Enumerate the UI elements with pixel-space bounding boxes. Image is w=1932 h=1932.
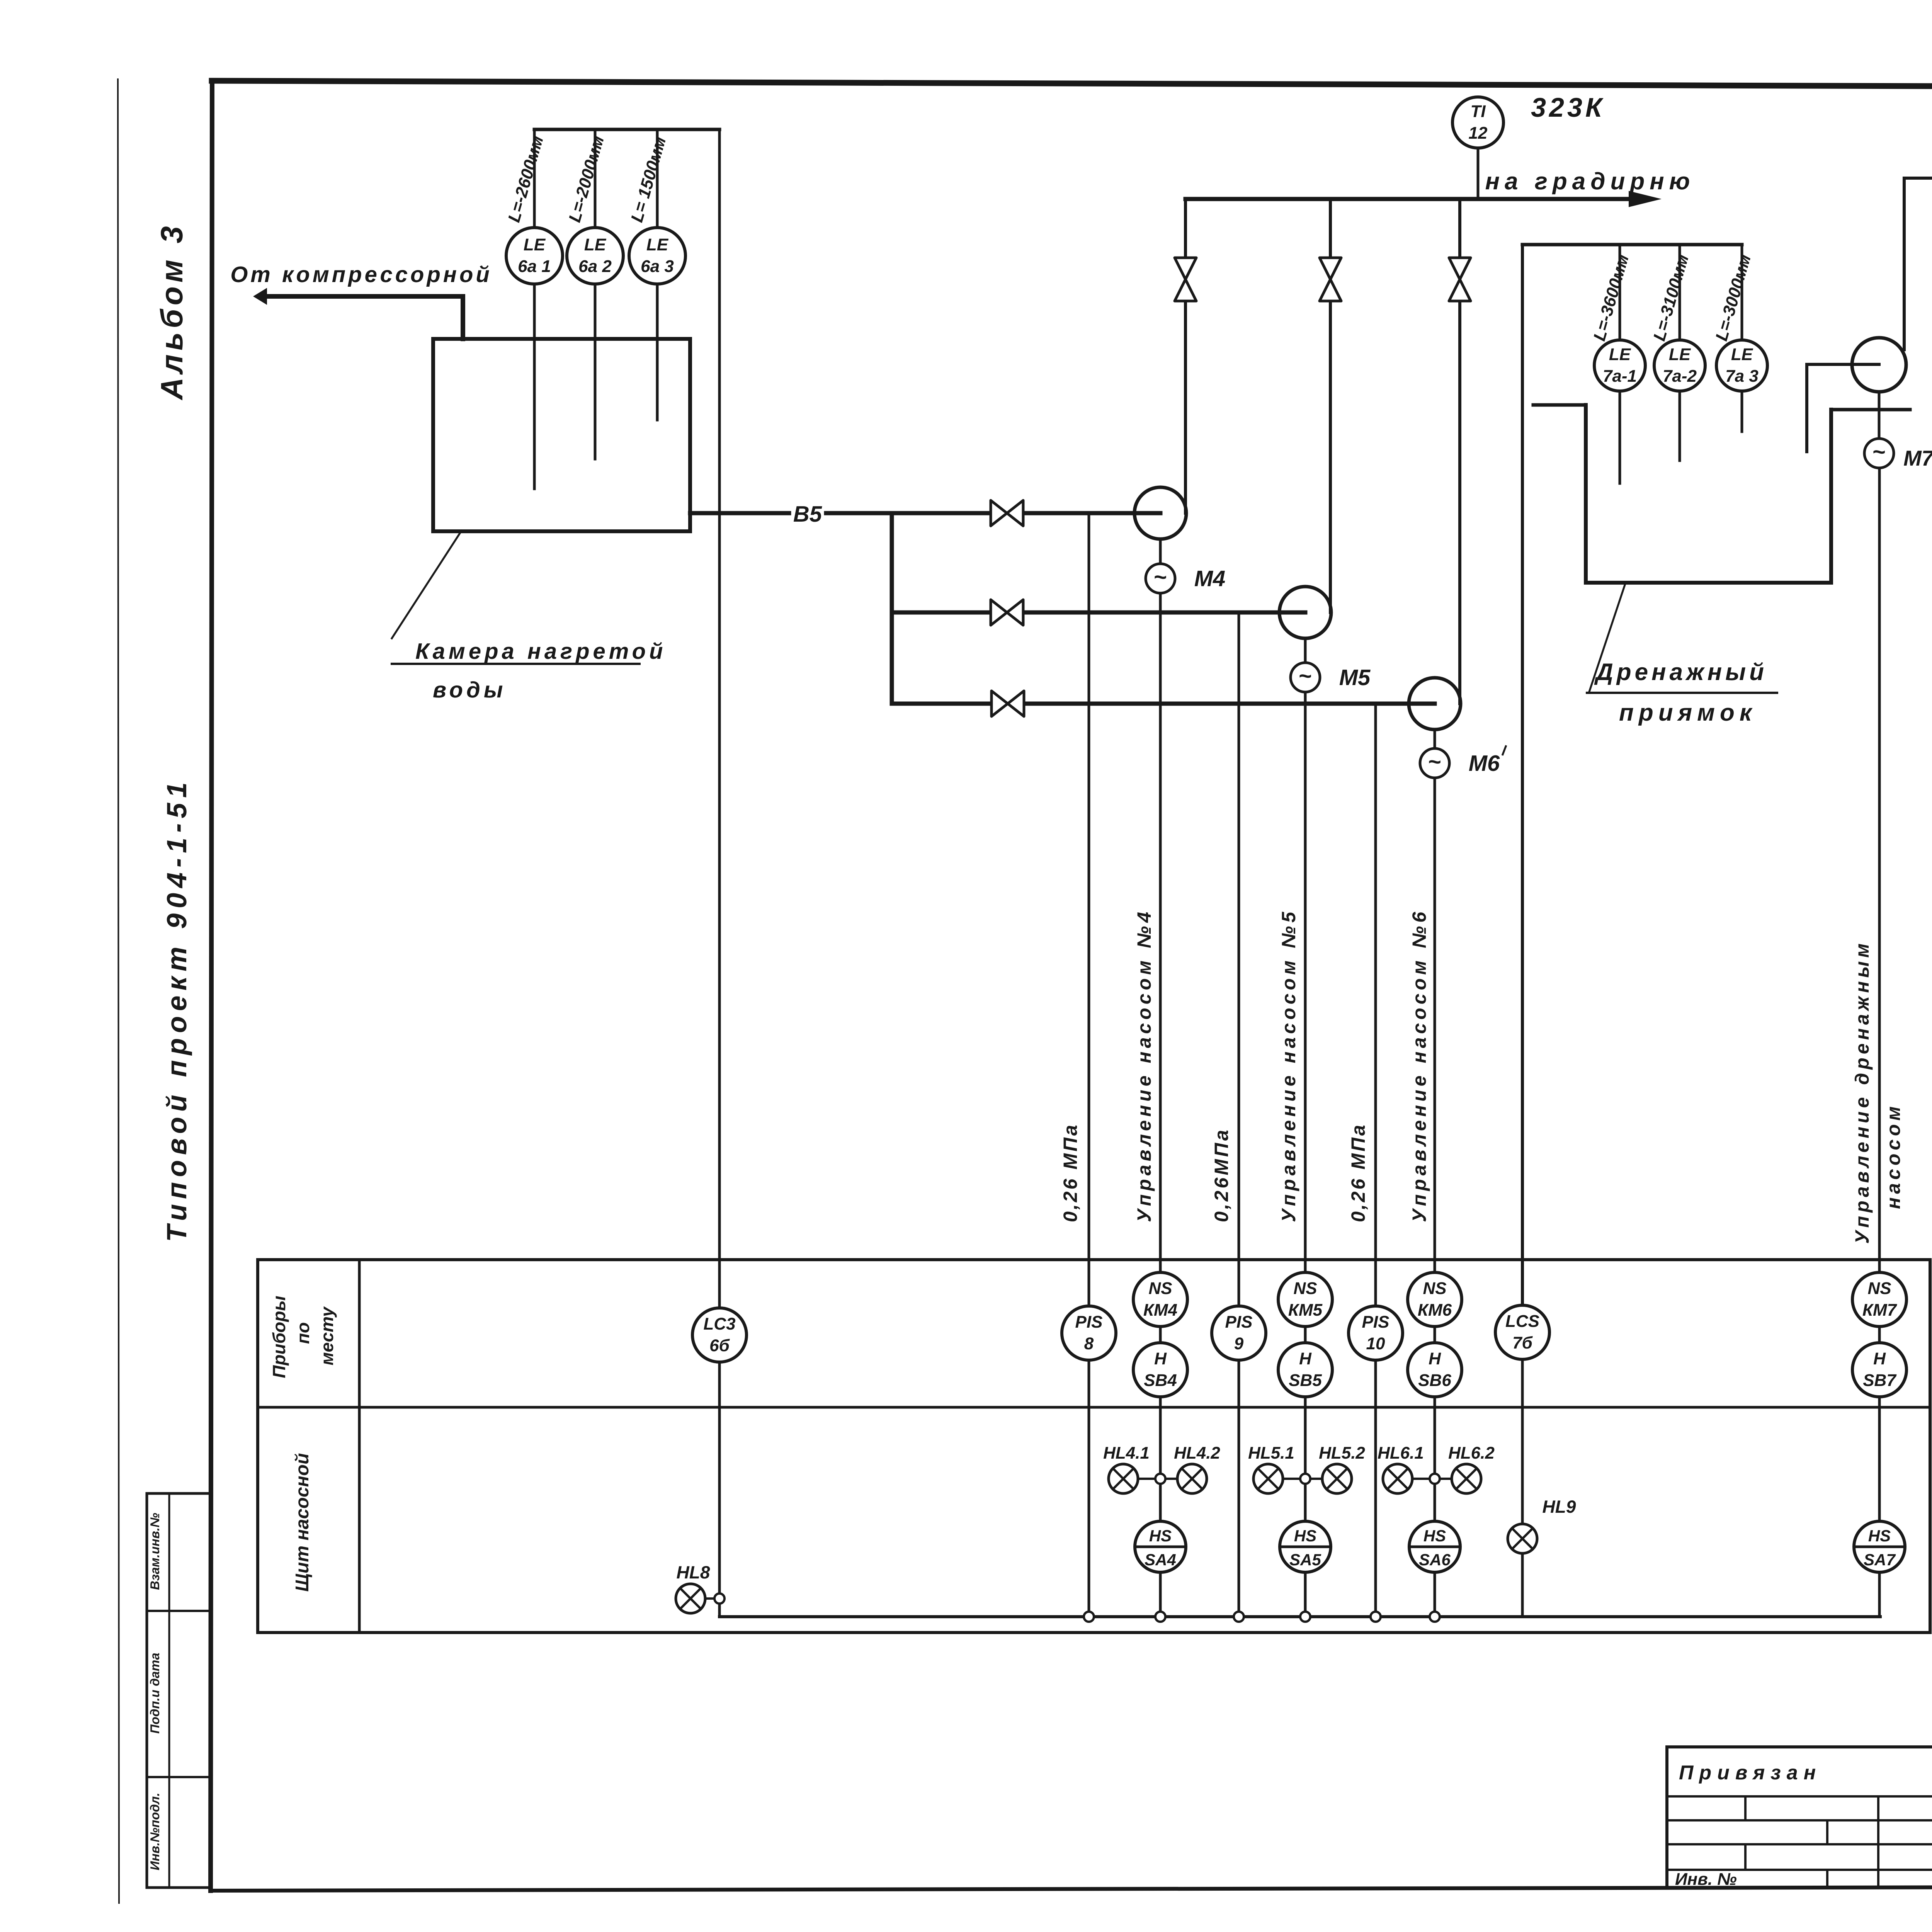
svg-text:7а-2: 7а-2	[1663, 367, 1697, 386]
svg-text:7а 3: 7а 3	[1725, 367, 1759, 386]
svg-text:Управление дренажным: Управление дренажным	[1851, 940, 1873, 1244]
svg-text:Управление насосом №4: Управление насосом №4	[1133, 908, 1155, 1222]
lamp HL6.2	[1440, 1464, 1481, 1493]
wire discharge riser pump 4	[1184, 199, 1187, 513]
svg-text:~: ~	[1428, 749, 1441, 774]
label HL9	[1543, 1497, 1576, 1517]
lamp HL5.1	[1253, 1464, 1300, 1493]
wire M7 suction	[1807, 364, 1879, 452]
svg-text:SА5: SА5	[1289, 1551, 1321, 1569]
svg-text:М6: М6	[1469, 751, 1500, 776]
switch HS SA5	[1280, 1521, 1331, 1572]
valve on branch 2	[991, 600, 1023, 625]
svg-text:LE: LE	[1609, 345, 1631, 364]
wire TI12 tap	[1477, 148, 1480, 199]
svg-text:HL9: HL9	[1543, 1497, 1576, 1517]
value label 0,26МПа (PIS9)	[1211, 1128, 1232, 1222]
svg-text:LE: LE	[646, 235, 669, 254]
valve on B5 main	[991, 500, 1023, 526]
margin note Типовой проект 904-1-51	[162, 777, 192, 1242]
wire LE7a header and LCS impulse	[1522, 245, 1742, 1305]
wire PIS9 column	[1238, 1360, 1240, 1617]
wire PIS8 column	[1088, 1360, 1090, 1617]
svg-text:Н: Н	[1299, 1349, 1312, 1368]
svg-text:0,26 МПа: 0,26 МПа	[1347, 1123, 1369, 1222]
junction node PIS9	[1234, 1612, 1244, 1622]
svg-text:L= 1500мм: L= 1500мм	[628, 134, 670, 224]
pressure switch PIS 10	[1349, 1306, 1403, 1360]
wire level sensor LE 6а 2	[594, 129, 597, 459]
pushbutton H SB7	[1852, 1343, 1906, 1397]
wire branch pipe 3	[892, 702, 1435, 706]
wire KM6 column	[1434, 1327, 1436, 1617]
svg-text:0,26МПа: 0,26МПа	[1211, 1128, 1232, 1222]
svg-text:0,26 МПа: 0,26 МПа	[1060, 1123, 1081, 1222]
svg-text:КМ4: КМ4	[1143, 1301, 1177, 1320]
lamp HL9	[1508, 1524, 1537, 1553]
svg-text:HL5.1: HL5.1	[1248, 1444, 1294, 1463]
svg-text:Подп.и дата: Подп.и дата	[148, 1653, 162, 1733]
label Управление насосом №4	[1133, 908, 1155, 1222]
row label Приборы по месту	[269, 1296, 337, 1378]
svg-text:SА6: SА6	[1419, 1551, 1451, 1569]
svg-text:NS: NS	[1293, 1279, 1317, 1298]
label Управление насосом №5	[1278, 908, 1299, 1222]
svg-text:L=-3000мм: L=-3000мм	[1712, 252, 1755, 343]
svg-text:Приборы: Приборы	[269, 1296, 289, 1378]
node HL4	[1155, 1474, 1165, 1484]
label HL4.1	[1103, 1444, 1150, 1463]
svg-text:7б: 7б	[1512, 1333, 1533, 1352]
pressure switch PIS 8	[1062, 1306, 1116, 1360]
label HL6.1	[1378, 1444, 1424, 1463]
label Привязан	[1679, 1762, 1821, 1784]
svg-text:LE: LE	[1731, 345, 1753, 364]
pump for motor М7	[1852, 338, 1906, 392]
label Камера нагретой воды	[392, 531, 666, 702]
svg-text:насосом: насосом	[1883, 1103, 1904, 1209]
tank камера нагретой воды	[433, 339, 690, 531]
label Инв. №	[1675, 1870, 1737, 1889]
svg-text:Управление насосом №5: Управление насосом №5	[1278, 908, 1299, 1222]
value label L=-2000мм	[565, 134, 608, 224]
wire LC3 column	[718, 129, 721, 1617]
svg-text:L=-2000мм: L=-2000мм	[565, 134, 608, 224]
wire impulse 0,26МПа to PIS8	[1088, 513, 1090, 1306]
label 323К	[1531, 92, 1605, 122]
svg-text:SВ6: SВ6	[1418, 1371, 1451, 1390]
svg-text:PIS: PIS	[1075, 1313, 1103, 1332]
wire control дренажный насос	[1878, 469, 1881, 1272]
value label L=-3000мм	[1712, 252, 1755, 343]
svg-text:7а-1: 7а-1	[1603, 367, 1637, 386]
svg-text:Н: Н	[1154, 1349, 1167, 1368]
svg-text:Альбом 3: Альбом 3	[155, 222, 189, 400]
lamp HL4.2	[1165, 1464, 1207, 1493]
inlet pipe from compressor	[253, 288, 463, 339]
label HL5.2	[1319, 1444, 1365, 1463]
svg-text:SА4: SА4	[1145, 1551, 1176, 1569]
svg-text:В5: В5	[793, 502, 822, 527]
wire pump-М4 shaft	[1159, 539, 1162, 564]
wire impulse 0,26МПа to PIS10	[1374, 704, 1377, 1306]
node B5 label	[793, 502, 822, 527]
svg-text:SА7: SА7	[1864, 1551, 1896, 1569]
wire discharge riser pump 6	[1458, 199, 1461, 704]
svg-text:HS: HS	[1423, 1527, 1446, 1545]
wire pump-М6 shaft	[1434, 730, 1436, 748]
svg-text:Взам.инв.№: Взам.инв.№	[148, 1513, 162, 1590]
svg-text:М5: М5	[1339, 665, 1371, 690]
svg-text:LCS: LCS	[1505, 1312, 1539, 1331]
svg-text:КМ5: КМ5	[1288, 1301, 1323, 1320]
svg-text:L=-3600мм: L=-3600мм	[1590, 252, 1633, 343]
wire level sensor LE 7а-1	[1619, 245, 1621, 483]
svg-text:L=-2600мм: L=-2600мм	[505, 134, 548, 224]
svg-text:HS: HS	[1149, 1527, 1172, 1545]
svg-text:месту: месту	[317, 1306, 337, 1366]
wire control насос №5	[1304, 692, 1307, 1272]
svg-text:Дренажный: Дренажный	[1594, 659, 1767, 685]
svg-text:HL6.2: HL6.2	[1448, 1444, 1495, 1463]
switch HS SA7	[1854, 1521, 1905, 1572]
level transmitter LE 6а 3	[629, 228, 685, 284]
wire control насос №4	[1159, 593, 1162, 1272]
wire PIS10 column	[1374, 1360, 1377, 1617]
svg-text:Н: Н	[1429, 1349, 1441, 1368]
pump for motor М5	[1279, 587, 1331, 638]
svg-text:PIS: PIS	[1362, 1313, 1389, 1332]
wire branch tee	[890, 513, 894, 704]
level switch LCS 7б	[1495, 1305, 1549, 1359]
svg-text:От компрессорной: От компрессорной	[230, 262, 492, 287]
margin note Альбом 3	[155, 222, 189, 400]
svg-text:12: 12	[1469, 124, 1488, 143]
label HL8	[677, 1562, 710, 1582]
wire level sensor LE 7а-2	[1679, 245, 1681, 461]
svg-text:HL6.1: HL6.1	[1378, 1444, 1424, 1463]
svg-text:Инв. №: Инв. №	[1675, 1870, 1737, 1889]
level transmitter LE 6а 2	[567, 228, 623, 284]
junction node KM5	[1300, 1612, 1310, 1622]
wire M7 discharge riser	[1904, 178, 1932, 350]
starter NS KM7	[1852, 1272, 1906, 1327]
svg-text:HL8: HL8	[677, 1562, 710, 1582]
instrument table frame	[258, 1260, 1930, 1633]
svg-text:10: 10	[1366, 1334, 1385, 1353]
row label Щит насосной	[292, 1453, 313, 1592]
wire discharge riser pump 5	[1329, 199, 1332, 612]
привязан block grid	[1667, 1747, 1932, 1888]
temperature indicator TI 12	[1452, 97, 1503, 148]
pump for motor М6	[1409, 678, 1461, 730]
label на градирню	[1485, 168, 1695, 195]
svg-text:9: 9	[1234, 1334, 1244, 1353]
lamp HL6.1	[1383, 1464, 1430, 1493]
svg-text:HL4.1: HL4.1	[1103, 1444, 1150, 1463]
switch HS SA6	[1409, 1521, 1460, 1572]
level controller LC3 6б	[692, 1308, 747, 1362]
motor М4	[1146, 564, 1175, 593]
svg-text:по: по	[293, 1322, 313, 1344]
node HL6	[1430, 1474, 1440, 1484]
lamp HL8	[676, 1584, 714, 1613]
drain pit walls	[1533, 405, 1910, 583]
wire collector на градирню	[1185, 191, 1662, 207]
valve on branch 3	[992, 691, 1024, 716]
wire LE6a header	[534, 128, 719, 131]
svg-text:LE: LE	[584, 235, 607, 254]
node HL8	[714, 1594, 724, 1604]
svg-text:6а 2: 6а 2	[578, 257, 612, 276]
value label L= 1500мм	[628, 134, 670, 224]
wire M7 shaft	[1878, 392, 1881, 439]
wire level sensor LE 7а 3	[1741, 245, 1743, 432]
label От компрессорной	[230, 262, 492, 287]
starter NS KM4	[1133, 1272, 1187, 1327]
svg-text:КМ7: КМ7	[1862, 1301, 1898, 1320]
wire pump-М5 shaft	[1304, 638, 1307, 663]
svg-text:КМ6: КМ6	[1418, 1301, 1452, 1320]
svg-text:NS: NS	[1423, 1279, 1446, 1298]
pushbutton H SB6	[1408, 1343, 1462, 1397]
svg-text:приямок: приямок	[1619, 699, 1757, 726]
motor М6	[1420, 748, 1449, 778]
level transmitter LE 7а-2	[1654, 340, 1705, 391]
lamp HL5.2	[1310, 1464, 1352, 1493]
junction node KM4	[1155, 1612, 1165, 1622]
svg-text:~: ~	[1154, 565, 1167, 590]
valve on riser 5	[1320, 258, 1341, 301]
svg-text:6б: 6б	[709, 1336, 730, 1355]
label М5	[1339, 665, 1371, 690]
svg-text:L=-3100мм: L=-3100мм	[1650, 252, 1693, 343]
level transmitter LE 7а-1	[1594, 340, 1645, 391]
wire control насос №6	[1434, 778, 1436, 1272]
starter NS KM6	[1408, 1272, 1462, 1327]
junction node PIS10	[1371, 1612, 1381, 1622]
wire impulse 0,26МПа to PIS9	[1238, 612, 1240, 1306]
svg-text:PIS: PIS	[1225, 1313, 1253, 1332]
starter NS KM5	[1278, 1272, 1332, 1327]
label М6	[1469, 745, 1506, 776]
svg-text:HS: HS	[1294, 1527, 1316, 1545]
label М4	[1194, 566, 1226, 591]
pressure switch PIS 9	[1212, 1306, 1266, 1360]
svg-text:~: ~	[1299, 663, 1312, 689]
motor М5	[1291, 663, 1320, 692]
svg-text:Типовой проект 904-1-51: Типовой проект 904-1-51	[162, 777, 192, 1242]
svg-text:на градирню: на градирню	[1485, 168, 1695, 195]
svg-text:HL5.2: HL5.2	[1319, 1444, 1365, 1463]
wire bus щит насосной	[719, 1615, 1880, 1618]
wire B5 main pipe	[690, 511, 1160, 515]
svg-text:NS: NS	[1867, 1279, 1891, 1298]
svg-text:Привязан: Привязан	[1679, 1762, 1821, 1784]
svg-text:Щит насосной: Щит насосной	[292, 1453, 313, 1592]
value label L=-3600мм	[1590, 252, 1633, 343]
svg-text:LE: LE	[524, 235, 546, 254]
pump for motor М4	[1134, 487, 1186, 539]
wire KM4 column	[1159, 1327, 1162, 1617]
svg-text:LC3: LC3	[703, 1315, 735, 1333]
wire level sensor LE 6а 1	[533, 129, 536, 489]
valve on riser 4	[1175, 258, 1196, 301]
value label 0,26 МПа (PIS10)	[1347, 1123, 1369, 1222]
svg-text:SВ5: SВ5	[1289, 1371, 1322, 1390]
svg-text:Инв.№подл.: Инв.№подл.	[148, 1793, 162, 1871]
label HL5.1	[1248, 1444, 1294, 1463]
svg-text:Камера нагретой: Камера нагретой	[415, 639, 666, 664]
label М7	[1903, 446, 1932, 470]
wire KM5 column	[1304, 1327, 1307, 1617]
svg-text:TI: TI	[1470, 102, 1486, 121]
label HL4.2	[1174, 1444, 1220, 1463]
switch HS SA4	[1135, 1521, 1186, 1572]
motor М7	[1864, 439, 1894, 468]
valve on riser 6	[1449, 258, 1471, 301]
svg-text:NS: NS	[1148, 1279, 1172, 1298]
stamp column (Взам.инв.№ / Подп.и дата / Инв.№подл.)	[147, 1493, 211, 1888]
svg-text:М7: М7	[1903, 446, 1932, 470]
junction node KM6	[1430, 1612, 1440, 1622]
label Дренажный приямок	[1587, 584, 1777, 726]
svg-text:~: ~	[1872, 439, 1886, 464]
svg-text:Управление насосом №6: Управление насосом №6	[1408, 908, 1430, 1222]
svg-text:323К: 323К	[1531, 92, 1605, 122]
wire LCS column	[1521, 1359, 1524, 1617]
svg-text:SВ4: SВ4	[1144, 1371, 1177, 1390]
svg-text:HS: HS	[1868, 1527, 1891, 1545]
svg-text:Н: Н	[1873, 1349, 1886, 1368]
level transmitter LE 6а 1	[506, 228, 563, 284]
svg-text:М4: М4	[1194, 566, 1226, 591]
svg-text:LE: LE	[1669, 345, 1691, 364]
svg-text:8: 8	[1084, 1334, 1094, 1353]
wire KM7 column	[1878, 1327, 1881, 1617]
label Управление насосом №6	[1408, 908, 1430, 1222]
svg-text:6а 1: 6а 1	[518, 257, 551, 276]
label HL6.2	[1448, 1444, 1495, 1463]
node HL5	[1300, 1474, 1310, 1484]
label Управление дренажным насосом	[1851, 940, 1904, 1244]
value label L=-3100мм	[1650, 252, 1693, 343]
pushbutton H SB4	[1133, 1343, 1187, 1397]
junction node PIS8	[1084, 1612, 1094, 1622]
value label 0,26 МПа (PIS8)	[1060, 1123, 1081, 1222]
value label L=-2600мм	[505, 134, 548, 224]
lamp HL4.1	[1109, 1464, 1155, 1493]
pushbutton H SB5	[1278, 1343, 1332, 1397]
svg-text:SВ7: SВ7	[1863, 1371, 1897, 1390]
wire branch pipe 2	[892, 611, 1305, 615]
svg-text:HL4.2: HL4.2	[1174, 1444, 1220, 1463]
level transmitter LE 7а 3	[1716, 340, 1767, 391]
svg-text:воды: воды	[433, 677, 506, 702]
wire level sensor LE 6а 3	[656, 129, 659, 420]
svg-text:6а 3: 6а 3	[641, 257, 674, 276]
